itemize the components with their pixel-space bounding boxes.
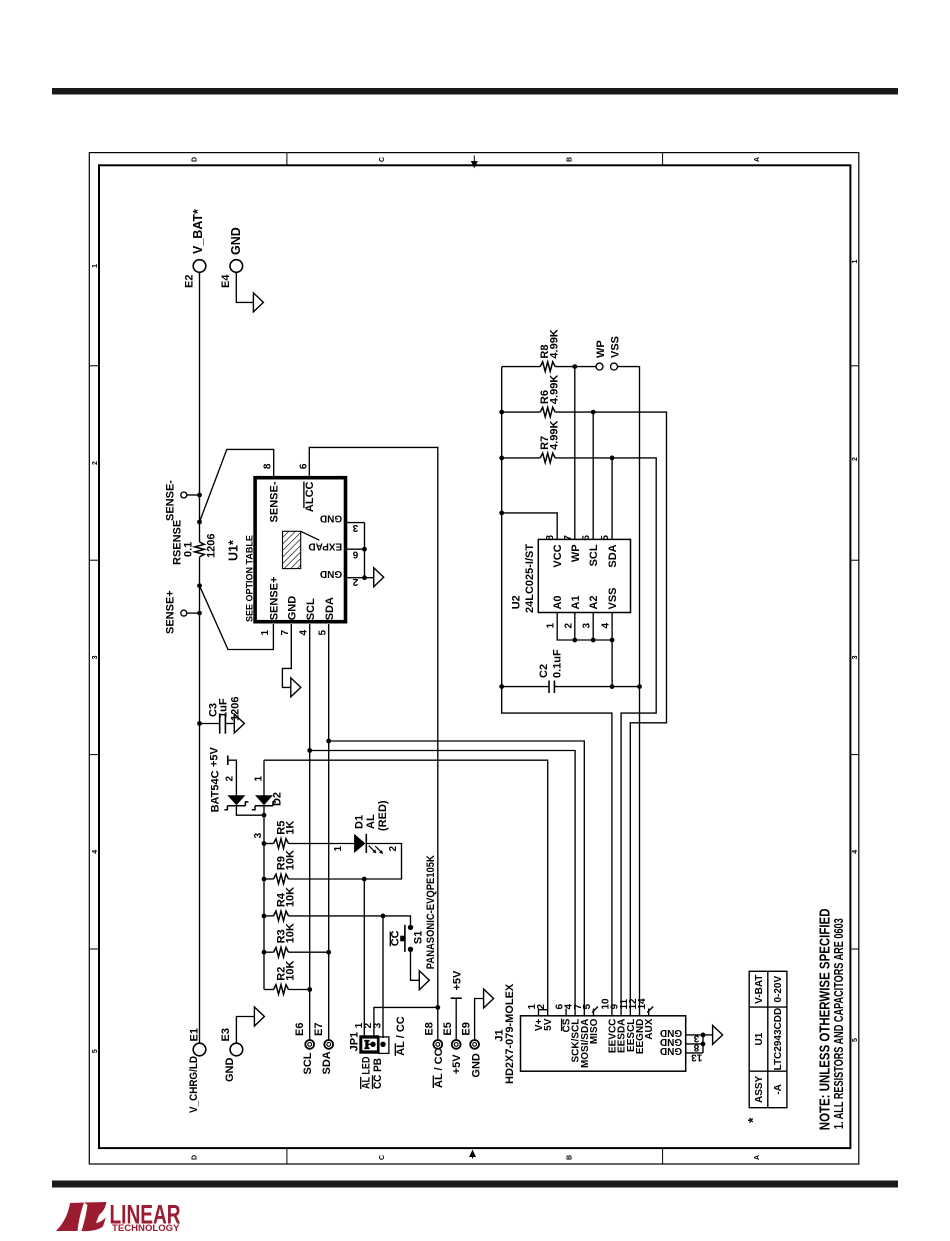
svg-text:SCL: SCL bbox=[588, 544, 600, 566]
svg-text:JP1: JP1 bbox=[348, 1032, 360, 1052]
svg-text:(RED): (RED) bbox=[377, 800, 389, 831]
ground at E4 bbox=[253, 293, 263, 312]
svg-text:5: 5 bbox=[600, 535, 611, 541]
svg-text:1. ALL RESISTORS AND CAPACITOR: 1. ALL RESISTORS AND CAPACITORS ARE 0603 bbox=[832, 918, 846, 1129]
svg-text:BAT54C: BAT54C bbox=[210, 770, 222, 812]
svg-text:5: 5 bbox=[582, 1004, 593, 1010]
svg-text:D1: D1 bbox=[354, 815, 366, 829]
ground at S1 bbox=[419, 971, 429, 990]
ground at C3 bbox=[234, 714, 244, 733]
wire E9 to ground bbox=[475, 999, 484, 1041]
svg-text:A0: A0 bbox=[552, 595, 564, 609]
wire U1 pin 7 to ground bbox=[282, 624, 291, 687]
turret E2 V_BAT bbox=[193, 260, 206, 273]
svg-text:13: 13 bbox=[691, 1052, 703, 1063]
svg-text:7: 7 bbox=[280, 630, 291, 636]
Linear Technology logo bbox=[56, 1200, 181, 1235]
svg-text:6: 6 bbox=[352, 549, 358, 560]
wire ALCC net: U1 pin6 up, right, down to AL/CC bbox=[309, 447, 438, 1007]
svg-text:EXPAD: EXPAD bbox=[308, 540, 342, 551]
svg-text:SCL: SCL bbox=[305, 598, 317, 620]
svg-text:1K: 1K bbox=[284, 821, 296, 835]
svg-text:MISO: MISO bbox=[589, 1018, 600, 1044]
wire U1 pin 3 stub bbox=[347, 522, 364, 524]
resistor R7 4.99K bbox=[502, 457, 541, 459]
svg-text:3: 3 bbox=[852, 655, 859, 659]
svg-text:1: 1 bbox=[253, 776, 264, 782]
svg-text:AL: AL bbox=[365, 814, 377, 829]
svg-text:4: 4 bbox=[298, 630, 309, 636]
svg-text:C2: C2 bbox=[538, 664, 550, 678]
turret E1 V_CHRG/LD bbox=[193, 1043, 206, 1056]
svg-text:VSS: VSS bbox=[607, 587, 619, 609]
svg-text:1: 1 bbox=[260, 630, 271, 636]
svg-text:E3: E3 bbox=[220, 1028, 232, 1041]
svg-text:1: 1 bbox=[92, 264, 99, 268]
svg-text:D2: D2 bbox=[272, 792, 284, 806]
turret E4 GND bbox=[230, 260, 243, 273]
svg-text:E5: E5 bbox=[442, 1022, 454, 1035]
resistor R9 10K bbox=[264, 878, 274, 880]
svg-text:AUX: AUX bbox=[644, 1018, 655, 1039]
wire U2 address pins to VSS bbox=[557, 613, 612, 641]
svg-text:U2: U2 bbox=[510, 595, 522, 609]
resistor R3 10K bbox=[264, 951, 274, 953]
J1 pin 6 stub bbox=[565, 1009, 567, 1016]
svg-text:1: 1 bbox=[333, 846, 344, 852]
power +5V at E5 bbox=[451, 997, 462, 999]
node junction SENSE- tap bbox=[197, 493, 202, 498]
svg-text:E8: E8 bbox=[423, 1022, 435, 1035]
svg-text:V_BAT*: V_BAT* bbox=[191, 209, 205, 254]
svg-text:SENSE-: SENSE- bbox=[269, 481, 281, 522]
svg-text:3: 3 bbox=[253, 832, 264, 838]
resistor R8 4.99K bbox=[502, 366, 541, 368]
svg-text:8: 8 bbox=[263, 463, 274, 469]
J1 pin 13 stub bbox=[686, 1052, 703, 1054]
bottom title bar bbox=[52, 1181, 898, 1188]
ground at J1 bbox=[713, 1025, 723, 1044]
node junction SENSE+ tap bbox=[197, 611, 202, 616]
svg-text:CC PB: CC PB bbox=[372, 1058, 384, 1089]
wire U1 pin 4 SCL down to E6 bbox=[309, 624, 311, 1040]
wire RSENSE to C3 to E1 (V_CHRG/LD net) bbox=[199, 557, 201, 1043]
wire D2 common cathode join bbox=[236, 806, 264, 815]
wire R3 to SDA bbox=[289, 951, 329, 953]
svg-text:3: 3 bbox=[92, 655, 99, 659]
svg-text:SDA: SDA bbox=[324, 597, 336, 620]
IC U2 24LC025-I/ST bbox=[538, 539, 630, 612]
svg-text:0.1: 0.1 bbox=[183, 542, 195, 557]
svg-text:GND: GND bbox=[320, 512, 342, 523]
J1 pin 8 stub bbox=[686, 1043, 703, 1045]
wire E3 to ground bbox=[236, 1017, 254, 1044]
wire D2 pin 1 anode bbox=[263, 760, 265, 795]
svg-text:5: 5 bbox=[852, 1038, 859, 1042]
wire E2 down to RSENSE (V_BAT net) bbox=[199, 272, 201, 542]
turret E5 +5V bbox=[452, 1040, 461, 1049]
svg-text:B: B bbox=[567, 1155, 574, 1160]
wire +5V to E5 bbox=[455, 998, 457, 1040]
turret E3 GND bbox=[230, 1043, 243, 1056]
wire U1 pin 2 stub to ground bbox=[347, 577, 373, 579]
svg-text:D: D bbox=[192, 157, 199, 162]
svg-text:10K: 10K bbox=[284, 923, 296, 943]
svg-text:14: 14 bbox=[637, 998, 648, 1010]
svg-text:SEE OPTION TABLE: SEE OPTION TABLE bbox=[245, 535, 255, 622]
svg-text:8: 8 bbox=[545, 535, 556, 541]
J1 pin 3 stub bbox=[686, 1034, 703, 1036]
svg-text:A: A bbox=[754, 157, 761, 162]
svg-text:0-20V: 0-20V bbox=[773, 976, 784, 1003]
svg-text:4: 4 bbox=[601, 623, 612, 629]
terminal VSS bbox=[611, 363, 618, 370]
D2 diode a bbox=[227, 795, 245, 805]
turret E9 GND bbox=[470, 1040, 479, 1049]
svg-text:2: 2 bbox=[536, 1004, 547, 1010]
svg-text:1: 1 bbox=[546, 623, 557, 629]
wire R7 tap down to U2 pin 5 bbox=[611, 458, 613, 540]
svg-text:NOTE: UNLESS OTHERWISE SPECIFI: NOTE: UNLESS OTHERWISE SPECIFIED bbox=[817, 908, 834, 1130]
wire WP tap down to U2 pin 7 bbox=[574, 367, 576, 540]
node junction RSENSE bottom bbox=[197, 583, 202, 588]
wire R2 to SCL bbox=[289, 989, 310, 991]
turret E8 AL/CC bbox=[433, 1040, 442, 1049]
wire U1 expad stub bbox=[347, 548, 364, 550]
node junction RSENSE top bbox=[197, 520, 202, 525]
svg-text:0.1uF: 0.1uF bbox=[551, 649, 563, 678]
svg-text:U1*: U1* bbox=[227, 540, 241, 561]
svg-text:+5V: +5V bbox=[451, 1054, 463, 1075]
svg-text:7: 7 bbox=[563, 535, 574, 541]
svg-text:C: C bbox=[379, 1155, 386, 1160]
wire U2 pin 4 down to C2 row bbox=[611, 613, 613, 687]
svg-text:E1: E1 bbox=[188, 1028, 200, 1041]
svg-text:WP: WP bbox=[570, 544, 582, 562]
IC U1 LTC2943 bbox=[255, 478, 345, 622]
svg-text:AL LED: AL LED bbox=[360, 1056, 372, 1089]
svg-text:U1: U1 bbox=[754, 1032, 765, 1045]
svg-text:ALCC: ALCC bbox=[304, 481, 316, 512]
switch S1 CC pushbutton PANASONIC-EVQPE105K bbox=[408, 925, 413, 930]
wire R7 row to J1 pin 9 bbox=[555, 458, 656, 1016]
svg-text:10K: 10K bbox=[284, 887, 296, 907]
svg-text:SCL: SCL bbox=[302, 1052, 314, 1074]
top title bar bbox=[52, 88, 898, 95]
wire pull-up bus bbox=[263, 844, 265, 990]
turret E6 SCL bbox=[305, 1040, 314, 1049]
svg-text:5: 5 bbox=[317, 630, 328, 636]
svg-text:B: B bbox=[567, 157, 574, 162]
svg-text:LTC2943CDD: LTC2943CDD bbox=[773, 1008, 784, 1071]
svg-text:4.99K: 4.99K bbox=[548, 375, 560, 404]
svg-text:A2: A2 bbox=[588, 595, 600, 609]
svg-text:5: 5 bbox=[92, 1049, 99, 1053]
wire AL/CC down to E8 bbox=[437, 1007, 439, 1040]
ground at E9 bbox=[484, 989, 494, 1008]
capacitor C2 0.1uF bbox=[502, 686, 549, 688]
svg-text:WP: WP bbox=[595, 340, 607, 358]
resistor RSENSE 0.1 1206 bbox=[195, 542, 205, 557]
svg-text:4: 4 bbox=[852, 850, 859, 854]
svg-text:GND: GND bbox=[470, 1053, 482, 1078]
svg-text:4: 4 bbox=[92, 850, 99, 854]
node C3 tap bbox=[197, 721, 202, 726]
power +5V at D2 pin 2 bbox=[227, 756, 229, 766]
wire SCL rail to J1 pin 4 bbox=[310, 751, 575, 1016]
svg-text:2: 2 bbox=[92, 461, 99, 465]
svg-text:A: A bbox=[754, 1155, 761, 1160]
svg-text:4.99K: 4.99K bbox=[548, 420, 560, 449]
svg-text:2: 2 bbox=[225, 776, 236, 782]
svg-text:AL / CC: AL / CC bbox=[433, 1048, 445, 1088]
svg-text:S1: S1 bbox=[412, 931, 424, 944]
resistor R5 1K bbox=[264, 843, 274, 845]
ground at E3 bbox=[254, 1007, 264, 1026]
svg-text:E9: E9 bbox=[460, 1022, 472, 1035]
svg-text:E2: E2 bbox=[183, 275, 195, 288]
svg-text:GND: GND bbox=[660, 1045, 682, 1056]
wire R6 tap down to U2 pin 6 bbox=[592, 412, 594, 539]
wire SDA rail to J1 pin 7 bbox=[329, 741, 585, 1016]
capacitor C3 1uF 1206 bbox=[200, 723, 220, 725]
svg-text:SDA: SDA bbox=[607, 544, 619, 567]
wire R6 row to J1 pin 11 bbox=[555, 412, 666, 1016]
wire R8 to WP bbox=[555, 366, 596, 368]
D2 diode b bbox=[255, 795, 273, 805]
wire diagonal SENSE+ to U1 pin 1 bbox=[200, 586, 274, 650]
svg-text:8: 8 bbox=[693, 1042, 699, 1053]
svg-text:GND: GND bbox=[224, 1058, 236, 1083]
svg-text:+5V: +5V bbox=[451, 970, 463, 991]
svg-text:SDA: SDA bbox=[321, 1051, 333, 1074]
svg-text:HD2X7-079-MOLEX: HD2X7-079-MOLEX bbox=[504, 983, 516, 1084]
resistor R6 4.99K bbox=[502, 411, 541, 413]
svg-text:1206: 1206 bbox=[229, 697, 241, 721]
svg-text:CC: CC bbox=[390, 930, 402, 946]
svg-text:SENSE+: SENSE+ bbox=[164, 590, 176, 634]
svg-text:6: 6 bbox=[298, 463, 309, 469]
svg-text:4.99K: 4.99K bbox=[548, 329, 560, 358]
svg-text:SENSE-: SENSE- bbox=[164, 480, 176, 521]
wire JP1 pin 2 to AL/CC node bbox=[374, 1007, 438, 1036]
svg-text:+5V: +5V bbox=[209, 746, 221, 767]
svg-text:-A: -A bbox=[773, 1084, 784, 1095]
wire D1 cathode to R9 bbox=[364, 844, 401, 880]
resistor R4 10K bbox=[264, 915, 274, 917]
svg-text:E6: E6 bbox=[294, 1023, 306, 1036]
svg-text:2: 2 bbox=[563, 623, 574, 629]
svg-text:SENSE+: SENSE+ bbox=[269, 577, 281, 621]
wire diagonal SENSE- to U1 pin 8 bbox=[200, 449, 274, 522]
svg-text:5V: 5V bbox=[543, 1018, 554, 1031]
svg-text:D: D bbox=[192, 1155, 199, 1160]
svg-text:PANASONIC-EVQPE105K: PANASONIC-EVQPE105K bbox=[425, 855, 437, 969]
wire U1 pin 5 SDA down to E7 bbox=[328, 624, 330, 1040]
sheet border frame (decorative) bbox=[89, 153, 859, 1164]
svg-text:GND: GND bbox=[287, 596, 299, 621]
turret E7 SDA bbox=[324, 1040, 333, 1049]
svg-text:ASSY: ASSY bbox=[754, 1075, 765, 1103]
resistor R2 10K bbox=[264, 989, 274, 991]
wire bus to U2 pin 8 bbox=[502, 513, 558, 540]
svg-text:2: 2 bbox=[852, 457, 859, 461]
wire VSS to J1 pin 12 bbox=[618, 367, 640, 1016]
svg-text:1uF: 1uF bbox=[218, 698, 230, 718]
svg-text:2: 2 bbox=[388, 846, 399, 852]
wire E4 to ground bbox=[236, 272, 253, 302]
svg-text:6: 6 bbox=[581, 535, 592, 541]
svg-text:1: 1 bbox=[852, 259, 859, 263]
wire EEVCC bus left side bbox=[502, 367, 612, 1016]
wire J1 pin 1 jog to 5V bbox=[539, 1010, 548, 1016]
terminal SENSE+ bbox=[181, 610, 187, 616]
J1 pin 5 stub (n/c) bbox=[593, 1009, 595, 1016]
svg-text:TECHNOLOGY: TECHNOLOGY bbox=[112, 1223, 180, 1234]
svg-text:GND: GND bbox=[229, 227, 243, 255]
terminal WP bbox=[596, 363, 603, 370]
wire 5V rail: D2 pin 1 to J1 pin 2 bbox=[264, 760, 548, 1016]
svg-text:E4: E4 bbox=[220, 274, 232, 288]
svg-text:AL / CC: AL / CC bbox=[395, 1016, 407, 1056]
ground at U1 pin 7 bbox=[291, 678, 301, 697]
svg-text:1206: 1206 bbox=[206, 534, 218, 558]
svg-text:GND: GND bbox=[320, 568, 342, 579]
option table bbox=[749, 971, 787, 1107]
svg-text:VCC: VCC bbox=[552, 544, 564, 567]
wire J1 ground bracket bbox=[702, 1035, 704, 1053]
J1 pin 14 stub (n/c) bbox=[648, 1009, 650, 1016]
wire R4 to S1 bbox=[289, 916, 411, 925]
svg-text:VSS: VSS bbox=[609, 336, 621, 358]
svg-text:C: C bbox=[379, 157, 386, 162]
wire expad bracket bbox=[364, 523, 366, 578]
terminal SENSE- bbox=[181, 492, 187, 498]
svg-text:24LC025-I/ST: 24LC025-I/ST bbox=[524, 544, 536, 613]
wire JP1 pin 1 from LED/R9 node bbox=[363, 879, 365, 1036]
wire R5 to D1 anode bbox=[289, 843, 355, 845]
wire JP1 pin 3 from R4/S1 node bbox=[382, 916, 384, 1038]
svg-text:10K: 10K bbox=[284, 960, 296, 980]
svg-text:A1: A1 bbox=[570, 595, 582, 609]
connector J1 HD2X7-079-MOLEX bbox=[521, 1016, 686, 1071]
svg-text:E7: E7 bbox=[313, 1023, 325, 1036]
ground at U1 expad bbox=[374, 568, 384, 587]
svg-text:10K: 10K bbox=[284, 850, 296, 870]
svg-text:*: * bbox=[745, 1117, 761, 1123]
svg-text:3: 3 bbox=[582, 623, 593, 629]
svg-text:3: 3 bbox=[352, 522, 358, 533]
svg-text:3: 3 bbox=[372, 1022, 383, 1028]
wire S1 to ground bbox=[411, 952, 420, 981]
wire +5V to D2 anode 2 bbox=[228, 760, 237, 795]
svg-text:V-BAT: V-BAT bbox=[754, 975, 765, 1004]
svg-text:V_CHRG/LD: V_CHRG/LD bbox=[188, 1056, 200, 1113]
